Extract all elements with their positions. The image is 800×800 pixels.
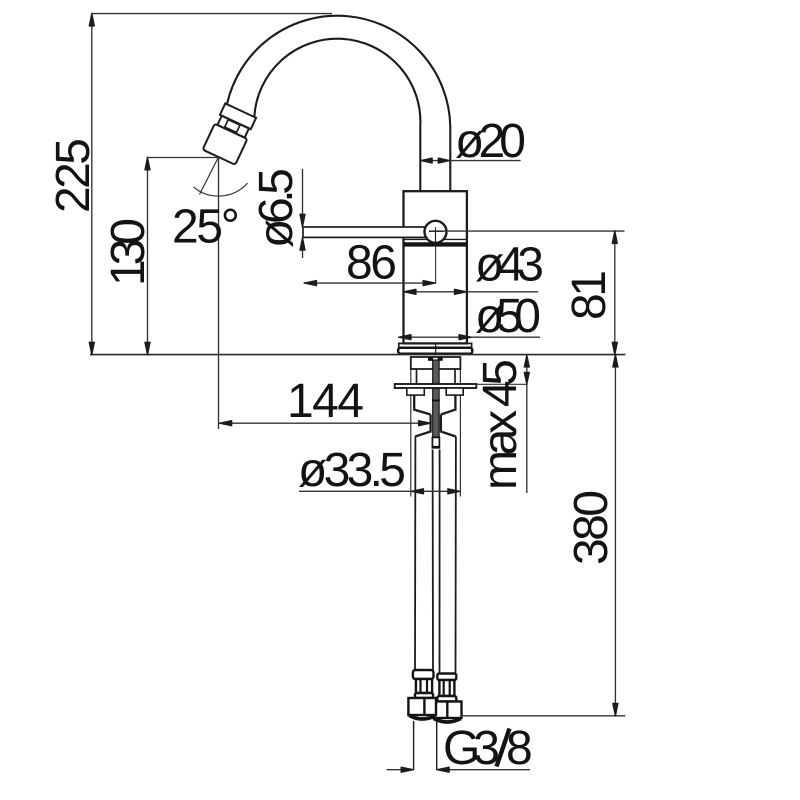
arrow o6.5 up (300, 237, 305, 250)
aerator window (225, 120, 240, 133)
svg-text:ø43: ø43 (475, 239, 544, 292)
shank pin right (438, 357, 443, 361)
svg-text:25°: 25° (172, 201, 240, 254)
dim o50 line (399, 336, 541, 338)
A nut (408, 698, 436, 715)
arrow o50 left (399, 335, 412, 340)
dim o6.5 vertical line upper (302, 169, 304, 227)
washer plate (395, 384, 477, 388)
svg-text:130: 130 (102, 218, 155, 286)
arrow 81 down (612, 342, 617, 355)
waist (415, 415, 456, 437)
B nut (433, 702, 462, 719)
dim o33.5 line with text underline (299, 490, 460, 492)
svg-text:max 45: max 45 (474, 359, 527, 490)
countertop line (90, 354, 625, 356)
dim max45 vertical line (526, 355, 528, 493)
arrow 130 up (145, 157, 150, 170)
arrow 225 down (89, 342, 94, 355)
arrow 380 down (613, 703, 618, 716)
dim 130 vertical line (147, 158, 149, 355)
dim 225 vertical line (91, 14, 93, 355)
B lower band (437, 696, 456, 702)
hose A fitting (front) (408, 670, 436, 719)
plate tab left (407, 388, 425, 395)
base collar (399, 343, 472, 347)
arrow o20 left (421, 158, 433, 163)
svg-text:G3: G3 (443, 722, 500, 775)
handle lever (303, 227, 436, 237)
body joint thick band (404, 242, 467, 246)
A lower band (415, 693, 433, 698)
mounting shank (411, 357, 461, 369)
dim 380 bottom extension line (461, 715, 625, 717)
angle arc (193, 183, 247, 196)
arrow o43 left (404, 289, 417, 294)
arrow max45 down (524, 372, 529, 384)
dim G3/8 right line (437, 769, 530, 771)
dim G3/8 left line (387, 769, 414, 771)
arrow o33.5 right (448, 489, 461, 494)
slash of G3/8 (497, 729, 510, 767)
svg-text:144: 144 (287, 375, 364, 428)
hose B right edge (455, 437, 457, 674)
arrow 225 up (89, 13, 94, 26)
svg-text:81: 81 (563, 270, 616, 320)
svg-text:86: 86 (346, 237, 397, 290)
faucet body (404, 191, 467, 343)
inner tube below shank right (454, 369, 456, 384)
arrow 380 up (613, 354, 618, 367)
arrow 86 left (304, 281, 317, 286)
svg-text:380: 380 (565, 490, 618, 565)
dim o20 leader underline (450, 160, 521, 162)
arrow o43 right (454, 289, 467, 294)
ball crosshair (429, 227, 444, 243)
funnel cone (414, 395, 455, 414)
G3/8 stub pipe right edge (436, 721, 438, 770)
shank extension line left (o33.5) (410, 369, 412, 497)
plate tab right (446, 388, 463, 395)
nozzle tip vertical extension line (218, 158, 220, 429)
aerator mid section (217, 116, 248, 138)
B ferrule (437, 674, 456, 681)
dim 130 top extension line (148, 157, 219, 159)
ball joint (425, 221, 447, 243)
arrow G3/8 pointing left (437, 767, 450, 772)
base flange (398, 348, 472, 354)
spout gooseneck tube inner edge (254, 39, 420, 191)
arrow 144 left (219, 421, 232, 426)
A ferrule (413, 670, 434, 679)
arrow 144 right (419, 421, 432, 426)
hose B left edge (439, 450, 441, 674)
dim 225 top extension line (92, 13, 332, 15)
dim 81 extension line (429, 230, 625, 232)
svg-text:ø50: ø50 (475, 290, 541, 343)
hose A left edge (414, 437, 416, 671)
arrow max45 up (524, 355, 529, 367)
spout gooseneck tube outer edge (227, 16, 450, 191)
svg-text:ø6.5: ø6.5 (250, 168, 303, 248)
A nut bottom rim (409, 716, 435, 720)
arrow o50 right (459, 335, 472, 340)
nozzle axis ray at 25deg (200, 157, 219, 195)
arrow o20 right (438, 158, 450, 163)
dim o6.5 vertical line lower (302, 237, 304, 258)
svg-text:225: 225 (47, 138, 100, 213)
ball seat line (404, 238, 467, 240)
arrow G3/8 pointing right (401, 767, 414, 772)
G3/8 stub pipe left edge (413, 721, 415, 770)
arrow o33.5 left (411, 489, 424, 494)
arrow 130 down (145, 342, 150, 355)
shank extension line right (o33.5) (459, 369, 461, 497)
dim o20 arrow line (421, 160, 450, 162)
inner tube below shank left (416, 369, 418, 384)
aerator body (203, 124, 248, 165)
A knurl (416, 679, 432, 693)
svg-text:ø20: ø20 (455, 115, 526, 168)
hose B fitting (behind) (433, 674, 462, 723)
dim 144 line (219, 422, 431, 424)
arrow o6.5 down (300, 214, 305, 227)
B knurl (439, 680, 454, 696)
aerator assembly (rotated 25deg about tube end) (203, 103, 257, 165)
dim o43 line (404, 291, 539, 293)
plate top extension line to max45 (476, 383, 527, 385)
ball centerline down to 86 (435, 247, 437, 284)
dim 81 vertical line (614, 231, 616, 355)
dim 86 line (304, 282, 436, 284)
rod end box (432, 437, 439, 447)
arrow 86 right (423, 281, 436, 286)
rod end box bottom tick (432, 446, 439, 448)
arrowheads (89, 13, 618, 772)
flange center tick (435, 344, 437, 355)
dim 380 vertical line (614, 355, 616, 716)
svg-text:ø33.5: ø33.5 (298, 444, 406, 497)
aerator collar (220, 103, 256, 129)
rod joint tick (432, 400, 440, 402)
threaded rod (433, 360, 439, 437)
shank pin left (428, 357, 433, 361)
arrow 81 up (612, 231, 617, 244)
hose A right edge (432, 450, 434, 671)
B nut bottom rim (434, 719, 461, 723)
